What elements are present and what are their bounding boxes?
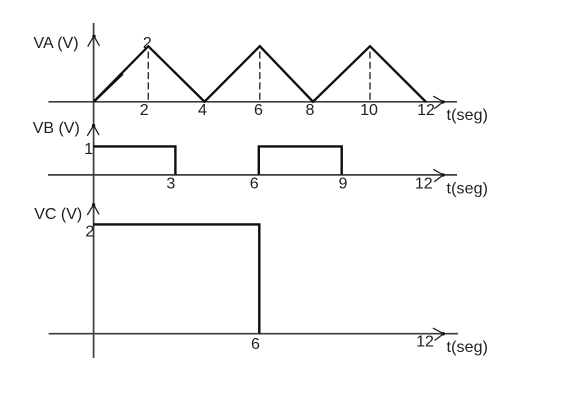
svg-text:2: 2	[85, 223, 94, 240]
VC horizontal-axis arrowhead	[433, 328, 445, 340]
VA horizontal-axis arrowhead	[433, 96, 444, 108]
svg-text:2: 2	[143, 35, 152, 52]
svg-text:VA (V): VA (V)	[34, 35, 79, 52]
VC vertical-axis arrowhead	[87, 203, 99, 215]
VB vertical-axis arrowhead	[87, 124, 99, 136]
VA dashed line at t=6	[259, 52, 261, 102]
svg-text:12: 12	[415, 176, 433, 193]
svg-text:6: 6	[250, 176, 259, 193]
svg-text:8: 8	[306, 102, 315, 119]
VA rising edge overdraw (kink)	[94, 74, 123, 102]
svg-text:6: 6	[251, 336, 260, 353]
svg-text:9: 9	[339, 176, 348, 193]
VA vertical-axis arrowhead	[88, 35, 100, 47]
VA horizontal axis	[48, 101, 457, 103]
svg-text:1: 1	[84, 141, 93, 158]
svg-text:3: 3	[166, 176, 175, 193]
shared vertical axis	[93, 23, 95, 358]
VC pulse (0 to 6)	[93, 224, 259, 333]
VC horizontal axis	[49, 333, 458, 335]
svg-text:VC (V): VC (V)	[34, 206, 82, 223]
svg-text:t(seg): t(seg)	[447, 339, 489, 356]
VB horizontal-axis arrowhead	[433, 169, 444, 181]
svg-text:2: 2	[140, 102, 149, 119]
svg-text:t(seg): t(seg)	[447, 180, 489, 197]
svg-text:VB (V): VB (V)	[33, 120, 80, 137]
svg-text:12: 12	[416, 334, 434, 351]
VA dashed line at t=10	[369, 52, 371, 102]
VA triangular waveform	[94, 46, 426, 102]
svg-text:6: 6	[254, 102, 263, 119]
svg-text:10: 10	[360, 102, 378, 119]
svg-text:t(seg): t(seg)	[447, 107, 489, 124]
VB horizontal axis	[48, 174, 457, 176]
VB pulse 2 (6 to 9)	[259, 146, 342, 174]
svg-text:4: 4	[198, 102, 207, 119]
VA dashed line at t=2	[147, 52, 149, 102]
svg-text:12: 12	[417, 102, 435, 119]
VB pulse 1 (0 to 3)	[93, 146, 175, 174]
